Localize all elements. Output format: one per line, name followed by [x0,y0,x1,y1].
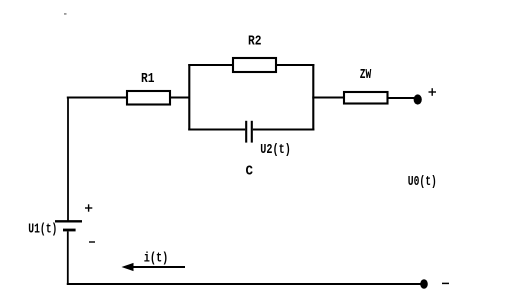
wire: resistor R1 to parallel network left junction [170,97,190,99]
svg-text:U1(t): U1(t) [28,222,57,238]
resistor ZW [344,92,388,104]
label + (output polarity) [429,88,437,96]
svg-text:ZW: ZW [360,67,372,83]
wire: bottom return [67,283,421,285]
battery U1 [55,221,82,230]
wire: top branch right segment [275,64,314,66]
terminal: output positive node [414,94,422,104]
terminal: output negative node [420,279,428,288]
capacitor C [246,121,252,143]
wire: resistor ZW to output positive terminal [387,97,415,99]
wire: top-left corner to resistor R1 [67,97,127,99]
wire: parallel network right branch vertical [312,64,314,131]
svg-text:R2: R2 [248,33,262,49]
wire: capacitor to bottom branch right segment [253,128,314,130]
svg-text:R1: R1 [141,71,155,87]
svg-text:i(t): i(t) [144,251,169,267]
svg-text:U0(t): U0(t) [408,174,437,190]
resistor R2 [233,58,276,72]
wire: parallel network left branch vertical [188,64,190,131]
wire: top branch left segment [188,64,234,66]
current arrow i(t) [122,263,186,271]
label + (battery polarity) [85,204,92,211]
svg-text:C: C [246,164,254,180]
label - (output polarity) [442,282,449,284]
svg-text:U2(t): U2(t) [260,142,291,158]
wire: battery positive terminal up to top-left corner [67,97,69,221]
wire: parallel network to resistor ZW [312,97,344,99]
wire: bottom branch left segment to capacitor [188,128,245,130]
label - (battery polarity) [89,241,95,243]
resistor R1 [127,91,170,105]
wire: battery negative terminal down to bottom-left corner [67,231,69,285]
